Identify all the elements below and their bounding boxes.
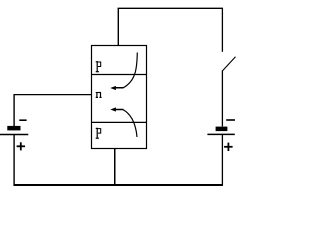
label p (top region) (96, 61, 101, 72)
label - (B1) (19, 119, 26, 121)
wire: left battery up vertical (13, 94, 15, 126)
wire: right vertical to switch (221, 8, 223, 52)
label - (B2) (226, 119, 235, 121)
wire: emitter top vertical (117, 8, 119, 45)
label p (bottom region) (96, 128, 101, 139)
wire: left battery down (13, 135, 15, 186)
battery B1 positive plate (long thin line) (0, 134, 28, 136)
wire: switch to right battery (221, 71, 223, 127)
battery B1 negative plate (thick bar) (7, 126, 20, 130)
hole-flow arrow (top, curving into n) (115, 53, 138, 88)
wire: collector bottom vertical (114, 149, 116, 186)
transistor body outline (p-n-p block) (92, 46, 147, 149)
label + (B1) (17, 142, 25, 150)
switch S1 blade (open) (222, 57, 235, 71)
label n (middle region) (96, 92, 102, 98)
wire: right battery down (221, 135, 223, 186)
wire: bottom horizontal (14, 184, 223, 186)
wire: base horizontal to block (14, 94, 92, 96)
label + (B2) (224, 143, 233, 151)
battery B2 negative plate (thick bar) (216, 127, 228, 132)
hole-flow arrow (bottom, curving into n) (115, 110, 137, 138)
battery B2 positive plate (long thin line) (207, 133, 234, 135)
junction divider n/p (92, 121, 147, 123)
wire: top horizontal (118, 7, 223, 9)
junction divider p/n (92, 74, 147, 76)
